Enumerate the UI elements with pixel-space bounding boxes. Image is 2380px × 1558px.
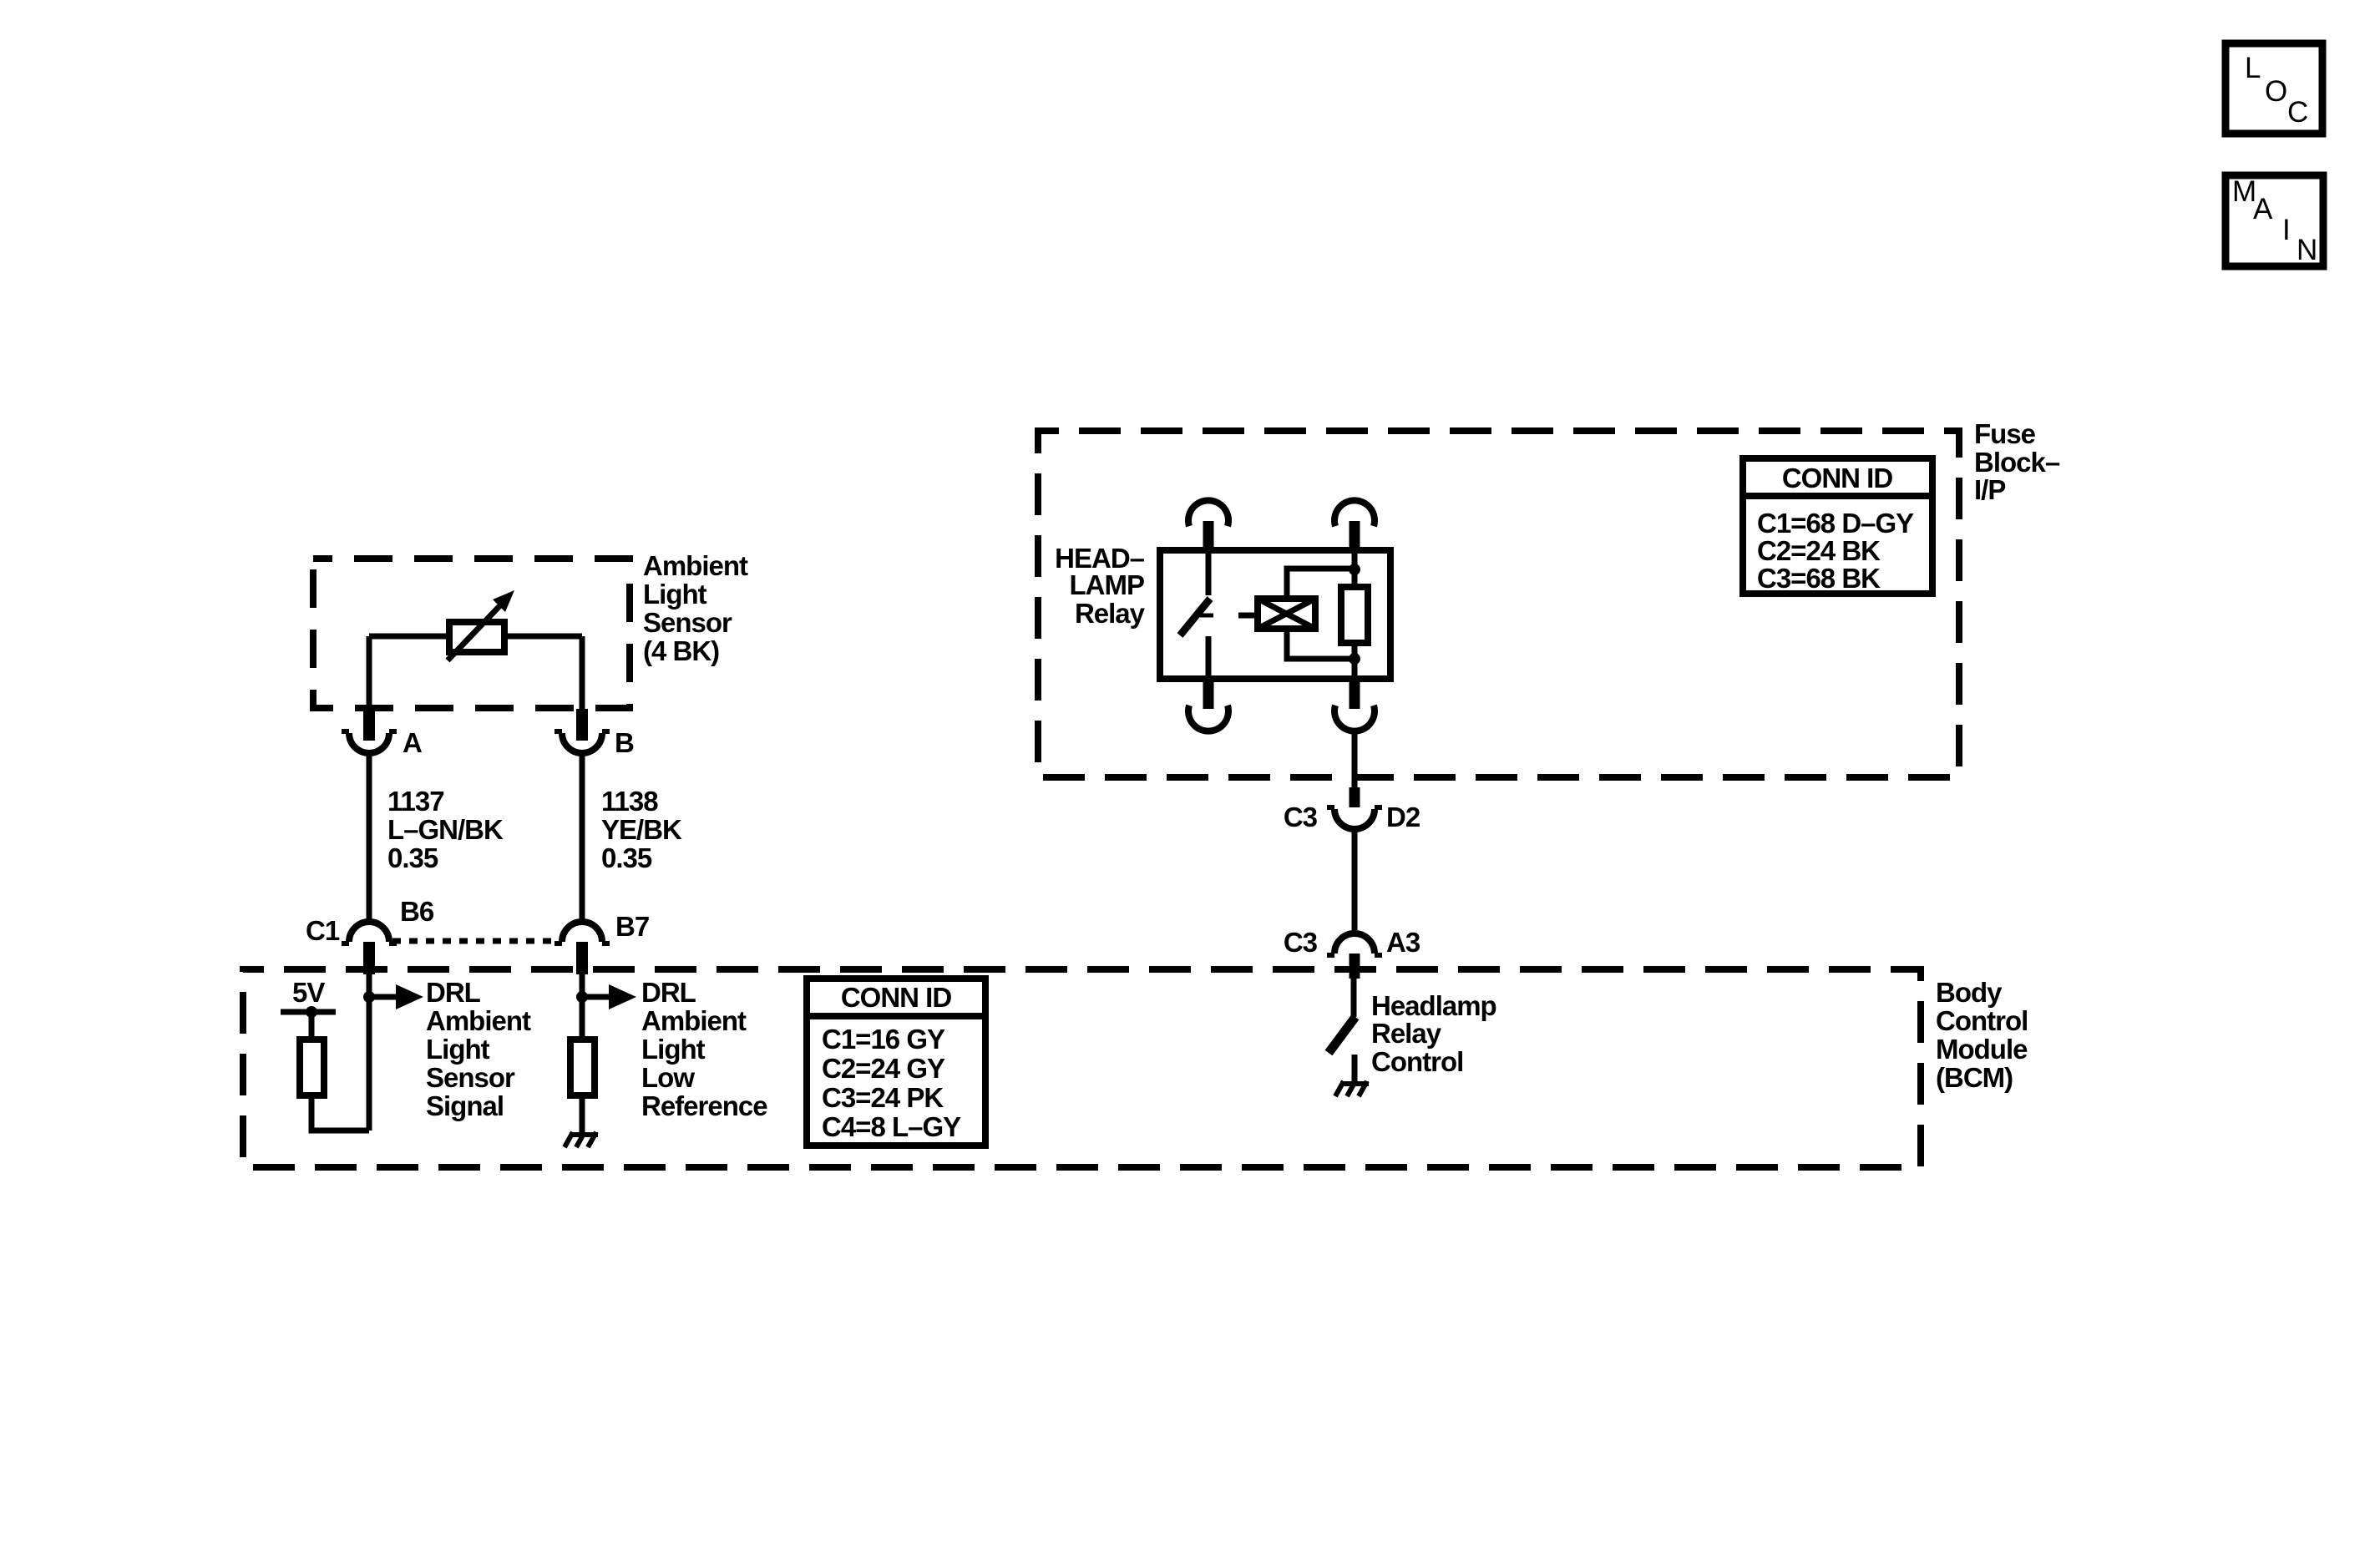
svg-text:C3: C3: [1284, 927, 1318, 958]
label: DRL Ambient Light Sensor Signal: [426, 977, 531, 1121]
wire 1137 vertical: [367, 753, 372, 922]
relay switch upper lead: [1206, 550, 1212, 595]
svg-text:C1: C1: [306, 915, 340, 946]
svg-text:DRL: DRL: [641, 977, 696, 1008]
svg-text:C2=24 GY: C2=24 GY: [822, 1053, 945, 1084]
svg-text:B6: B6: [400, 896, 434, 927]
label: Body Control Module (BCM): [1936, 977, 2028, 1093]
svg-text:Ambient: Ambient: [426, 1005, 531, 1036]
pin stub A3: [1350, 954, 1360, 979]
connector C1 dashed link line: [392, 938, 561, 944]
photoresistor R (variable) body: [449, 622, 504, 652]
svg-text:Fuse: Fuse: [1974, 418, 2036, 449]
wire: relay to D2: [1352, 731, 1358, 787]
svg-text:Sensor: Sensor: [643, 607, 732, 638]
svg-text:Relay: Relay: [1371, 1018, 1442, 1049]
svg-text:DRL: DRL: [426, 977, 481, 1008]
svg-text:Control: Control: [1371, 1046, 1463, 1077]
connector cup A: [349, 733, 389, 753]
svg-text:Light: Light: [643, 579, 707, 610]
connector cup B: [562, 733, 602, 753]
svg-text:(BCM): (BCM): [1936, 1062, 2013, 1093]
svg-text:Signal: Signal: [426, 1090, 504, 1121]
label: Ambient Light Sensor (4 BK): [643, 550, 748, 666]
svg-text:0.35: 0.35: [601, 842, 652, 873]
svg-text:C3=68 BK: C3=68 BK: [1757, 563, 1881, 594]
relay switch lower contact: [1206, 636, 1212, 679]
wire: resistor to ground: [580, 1095, 585, 1132]
wire 1138 vertical: [580, 753, 585, 922]
wire: D2 to A3: [1352, 829, 1358, 933]
locator box MAIN: [2226, 175, 2323, 266]
svg-text:C4=8 L–GY: C4=8 L–GY: [822, 1111, 961, 1142]
svg-text:Low: Low: [641, 1062, 695, 1093]
ground (BCM internal): [565, 1132, 598, 1147]
svg-text:A: A: [403, 727, 422, 758]
relay pin dome top-right: [1334, 500, 1375, 526]
label: Headlamp Relay Control: [1371, 990, 1496, 1077]
relay coil (crossed box): [1258, 599, 1315, 629]
ground (headlamp relay control): [1335, 1081, 1369, 1096]
wire: B7 low reference drop: [580, 974, 585, 1040]
svg-text:A: A: [2253, 193, 2273, 225]
svg-text:C1=16 GY: C1=16 GY: [822, 1024, 945, 1055]
wire: sensor internal right vertical: [580, 636, 585, 709]
relay U (headlamp relay) box: [1160, 550, 1390, 679]
BCM driver switch blade: [1329, 1017, 1355, 1053]
5V supply bar: [281, 1009, 336, 1015]
relay pin stub top-left: [1203, 521, 1214, 550]
node: B7 junction dot: [576, 991, 588, 1003]
relay coil lead: [1238, 613, 1258, 619]
svg-text:A3: A3: [1386, 927, 1420, 958]
svg-text:1138: 1138: [601, 786, 658, 817]
connector pin stub B: [576, 709, 588, 741]
relay pin stub bottom-right: [1350, 679, 1360, 709]
svg-text:L: L: [2245, 52, 2261, 84]
resistor (BCM pull-up): [300, 1040, 324, 1095]
wire: 5V to resistor: [309, 1012, 315, 1040]
svg-text:O: O: [2265, 75, 2287, 108]
svg-text:Module: Module: [1936, 1034, 2028, 1065]
pin stub D2: [1350, 787, 1360, 807]
label: Fuse Block- I/P: [1974, 418, 2060, 505]
svg-text:CONN ID: CONN ID: [841, 982, 952, 1013]
fuse block I/P dashed box: [1038, 431, 1959, 777]
wire: A3 to BCM switch: [1351, 979, 1357, 1017]
CONN ID table (BCM): [807, 979, 985, 1146]
relay internal resistor: [1341, 587, 1368, 643]
svg-text:LAMP: LAMP: [1070, 569, 1145, 600]
wire label 1137 L-GN/BK 0.35: [387, 786, 504, 873]
svg-text:Headlamp: Headlamp: [1371, 990, 1496, 1021]
pin stub B6: [363, 942, 375, 974]
svg-text:YE/BK: YE/BK: [601, 814, 682, 845]
relay pin stub top-right: [1350, 521, 1360, 550]
node: coil bottom junction dot: [1349, 653, 1360, 665]
svg-text:C3: C3: [1284, 802, 1318, 832]
wire: B6 signal drop: [367, 974, 372, 1131]
wire: relay right branch lower: [1352, 643, 1358, 679]
ambient light sensor dashed box: [313, 559, 630, 708]
connector dome B7: [562, 922, 602, 942]
wire label 1138 YE/BK 0.35: [601, 786, 682, 873]
node: B6 junction dot: [363, 991, 375, 1003]
svg-text:C: C: [2287, 96, 2308, 129]
svg-text:Body: Body: [1936, 977, 2003, 1008]
wire: coil top loop: [1287, 569, 1355, 599]
BCM driver switch lower contact: [1352, 1055, 1358, 1081]
connector dome B6: [349, 922, 389, 942]
wire: sensor internal left vertical: [367, 636, 372, 709]
svg-text:0.35: 0.35: [387, 842, 438, 873]
BCM dashed box: [243, 969, 1921, 1167]
svg-text:C2=24 BK: C2=24 BK: [1757, 535, 1881, 566]
CONN ID table (fuse block): [1743, 458, 1932, 594]
relay switch blade: [1180, 599, 1210, 635]
label: HEAD-LAMP Relay: [1055, 543, 1146, 629]
svg-text:Light: Light: [641, 1034, 706, 1065]
svg-text:Reference: Reference: [641, 1090, 767, 1121]
connector dome A3: [1334, 933, 1375, 954]
svg-text:N: N: [2296, 234, 2317, 266]
connector cup D2: [1334, 809, 1375, 829]
svg-text:Ambient: Ambient: [643, 550, 748, 581]
relay pin stub bottom-left: [1203, 679, 1214, 709]
svg-text:(4 BK): (4 BK): [643, 635, 719, 666]
pin stub B7: [576, 942, 588, 974]
svg-text:Control: Control: [1936, 1005, 2028, 1036]
node: 5V junction dot: [306, 1006, 317, 1018]
relay pin cup bottom-left: [1188, 706, 1228, 731]
wire: relay right branch upper: [1352, 550, 1358, 587]
svg-text:C3=24 PK: C3=24 PK: [822, 1082, 944, 1113]
signal arrow B6: [369, 994, 396, 1000]
svg-text:Light: Light: [426, 1034, 490, 1065]
svg-text:Block–: Block–: [1974, 447, 2060, 478]
relay pin dome top-left: [1188, 500, 1228, 526]
svg-text:B: B: [615, 727, 634, 758]
svg-text:C1=68 D–GY: C1=68 D–GY: [1757, 508, 1914, 539]
svg-text:I/P: I/P: [1974, 474, 2005, 505]
wire: coil bottom loop: [1287, 629, 1355, 659]
relay pin cup bottom-right: [1334, 706, 1375, 731]
photoresistor arrow: [448, 604, 501, 660]
wire: resistor bottom L to signal line: [311, 1095, 369, 1131]
svg-text:I: I: [2282, 214, 2291, 246]
wire: sensor internal horizontal: [369, 634, 582, 640]
locator box LOC: [2226, 43, 2322, 134]
node: coil top junction dot: [1349, 564, 1360, 575]
label: DRL Ambient Light Low Reference: [641, 977, 767, 1121]
svg-text:CONN ID: CONN ID: [1782, 463, 1893, 493]
svg-text:5V: 5V: [292, 977, 325, 1008]
svg-text:L–GN/BK: L–GN/BK: [387, 814, 504, 845]
svg-text:1137: 1137: [387, 786, 444, 817]
svg-text:B7: B7: [615, 911, 649, 942]
svg-text:Ambient: Ambient: [641, 1005, 747, 1036]
resistor (BCM low ref): [570, 1040, 595, 1095]
relay switch pivot tick: [1200, 614, 1213, 618]
connector pin stub A: [363, 709, 375, 741]
svg-text:Sensor: Sensor: [426, 1062, 515, 1093]
svg-text:Relay: Relay: [1075, 598, 1146, 629]
svg-text:D2: D2: [1386, 802, 1420, 832]
signal arrow B7: [582, 994, 609, 1000]
